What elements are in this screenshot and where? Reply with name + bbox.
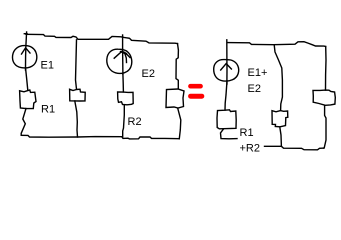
wire: left circuit left side lower: [21, 109, 26, 136]
wire: R1 (right) to bottom stub: [221, 129, 238, 139]
source E1: [12, 32, 36, 70]
wire: left circuit right side upper: [176, 44, 178, 89]
resistor R1: [20, 90, 36, 109]
wire: E source to R1 (right): [225, 81, 227, 110]
svg-text:E2: E2: [248, 83, 261, 95]
svg-text:E2: E2: [142, 68, 155, 80]
svg-text:R2: R2: [128, 116, 142, 128]
wire: left circuit top rail: [26, 34, 178, 43]
wire: right circuit middle branch lower: [280, 127, 282, 146]
resistor: right circuit right-branch box: [313, 90, 335, 105]
wire: left circuit bottom rail: [21, 135, 179, 139]
wire: E2 to R2: [122, 74, 125, 92]
wire: middle branch lower: [75, 101, 78, 137]
resistor R2: [118, 92, 134, 105]
svg-text:R1: R1: [41, 104, 55, 116]
resistor: left circuit right-branch box: [166, 89, 184, 108]
svg-text:E1+: E1+: [248, 67, 268, 79]
wire: right circuit top rail: [227, 42, 325, 47]
wire: right circuit bottom rail: [265, 146, 324, 150]
equals sign top bar: [191, 84, 201, 89]
wire: right circuit middle branch upper: [274, 45, 282, 111]
source E2: [107, 35, 132, 74]
wire: left circuit right side lower: [178, 109, 181, 139]
resistor: right circuit middle box: [272, 111, 288, 127]
equals sign bottom bar: [191, 94, 202, 99]
svg-text:E1: E1: [41, 60, 54, 72]
wire: R2 branch lower: [123, 105, 125, 137]
wire: right circuit right side upper: [325, 47, 328, 91]
resistor: left circuit middle box: [70, 89, 86, 101]
wire: right circuit right side lower: [324, 106, 327, 148]
svg-text:R1: R1: [240, 127, 254, 139]
wire: middle branch upper: [76, 40, 77, 89]
svg-text:+R2: +R2: [240, 143, 261, 155]
wire: E1 to R1: [26, 68, 28, 91]
source E1+E2: [214, 40, 239, 84]
resistor R1 (right): [217, 110, 236, 129]
